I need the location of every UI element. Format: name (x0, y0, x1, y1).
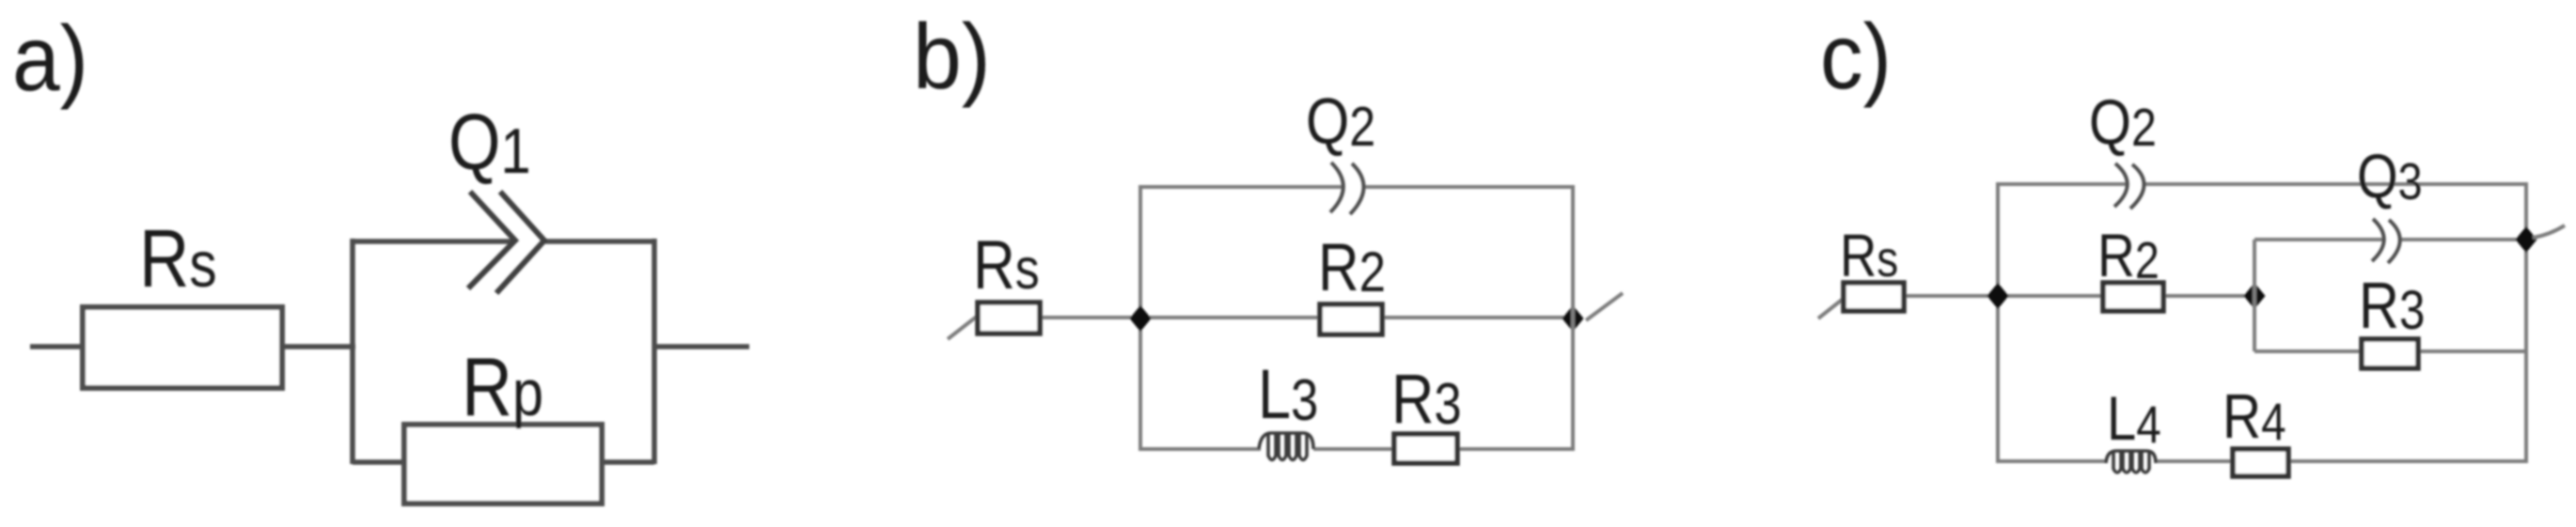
wire bottom rail (b) (1140, 447, 1573, 451)
svg-text:Q2: Q2 (2089, 87, 2157, 158)
svg-text:L4: L4 (2107, 384, 2161, 455)
wire right bar (b) (1571, 185, 1575, 451)
resistor R2 (c) (2103, 283, 2163, 311)
label Rp (462, 341, 543, 433)
node 3 (c) (2516, 226, 2537, 253)
resistor Rp (404, 425, 602, 504)
wire left bar (c) (1996, 182, 2000, 463)
CPE Q2 (c) (2114, 163, 2144, 209)
wire middle rail (b) (1034, 316, 1573, 319)
label L4 (2107, 384, 2161, 455)
node 1 (b) (1130, 305, 1152, 332)
wire top rail (b) (1140, 185, 1573, 189)
node 2 (c) (2244, 283, 2266, 309)
wire top rail (a) (353, 239, 654, 244)
svg-text:L3: L3 (1258, 355, 1318, 433)
terminal tick output (c) (2533, 225, 2565, 238)
label Q2 (c) (2089, 87, 2157, 158)
CPE Q2 (b) (1330, 163, 1364, 214)
resistor R3 (b) (1394, 434, 1457, 463)
inductor L4 (2106, 451, 2156, 473)
wire left bar (b) (1139, 185, 1142, 451)
panel label c) (1820, 6, 1892, 109)
terminal tick output (b) (1586, 293, 1623, 320)
wire bottom rail (a) (353, 459, 654, 465)
wire Q3 rail (c) (2254, 238, 2526, 241)
terminal tick input (c) (1818, 297, 1846, 318)
label R3 (b) (1391, 360, 1462, 438)
resistor R2 (b) (1320, 304, 1382, 334)
wire right bar (c) (2524, 182, 2528, 463)
svg-text:R3: R3 (2359, 268, 2425, 342)
label Q3 (2357, 142, 2423, 210)
wire output (a) (654, 344, 749, 349)
svg-text:c): c) (1820, 6, 1892, 109)
label Rs (a) (139, 213, 217, 304)
svg-text:R2: R2 (2097, 221, 2160, 289)
svg-text:R3: R3 (1391, 360, 1462, 438)
wire R3 rail (c) (2254, 349, 2526, 353)
CPE Q1 (468, 192, 544, 293)
svg-text:b): b) (913, 6, 991, 109)
svg-text:Q3: Q3 (2357, 142, 2423, 210)
label Rs (b) (973, 227, 1040, 303)
CPE Q3 (2372, 219, 2400, 263)
svg-text:Rs: Rs (139, 213, 217, 304)
label Q1 (448, 97, 531, 187)
resistor R4 (2233, 449, 2288, 476)
panel label b) (913, 6, 991, 109)
svg-text:Rs: Rs (973, 227, 1040, 303)
label L3 (1258, 355, 1318, 433)
svg-text:Rs: Rs (1840, 222, 1898, 289)
wire middle rail (c) (1899, 294, 2254, 298)
label R2 (b) (1318, 229, 1386, 304)
node 1 (c) (1987, 283, 2009, 309)
svg-text:Q1: Q1 (448, 97, 531, 187)
label R4 (2223, 382, 2286, 452)
wire top rail (c) (1998, 182, 2526, 186)
wire right bar (a) (652, 239, 657, 464)
label R3 (c) (2359, 268, 2425, 342)
resistor R3 (c) (2362, 339, 2418, 368)
wire sub-block left bar (c) (2253, 240, 2256, 351)
resistor Rs (b) (978, 302, 1040, 333)
wire Rs to block (a) (282, 344, 355, 349)
label Rs (c) (1840, 222, 1898, 289)
svg-text:Rp: Rp (462, 341, 543, 433)
svg-text:a): a) (12, 8, 88, 111)
inductor L3 (1259, 433, 1313, 460)
terminal tick input (b) (948, 316, 978, 339)
svg-text:R4: R4 (2223, 382, 2286, 452)
label R2 (c) (2097, 221, 2160, 289)
panel label a) (12, 8, 88, 111)
svg-text:R2: R2 (1318, 229, 1386, 304)
resistor Rs (a) (83, 307, 282, 388)
resistor Rs (c) (1844, 283, 1904, 311)
label Q2 (b) (1306, 84, 1375, 158)
node 2 (b) (1563, 305, 1584, 332)
wire input stub (a) (30, 344, 85, 349)
svg-text:Q2: Q2 (1306, 84, 1375, 158)
wire bottom rail (c) (1998, 459, 2526, 463)
wire left bar (a) (350, 239, 355, 464)
